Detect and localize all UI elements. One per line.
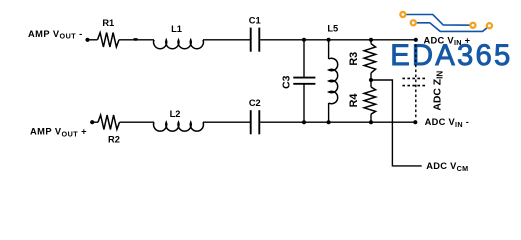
- node input minus dot: [85, 38, 89, 42]
- wire bottom rail: [260, 121, 415, 123]
- node junction dots top: [302, 38, 306, 42]
- EDA365 logo traces: [403, 15, 490, 32]
- resistor R3: [370, 40, 372, 44]
- svg-text:C1: C1: [249, 15, 261, 25]
- node input plus dot: [90, 120, 94, 124]
- svg-text:R4: R4: [348, 94, 360, 108]
- resistor R4: [370, 80, 372, 87]
- EDA365 logo vias: [400, 12, 492, 28]
- svg-text:EDA365: EDA365: [390, 39, 512, 72]
- node ADC VIN+ terminal: [414, 38, 418, 42]
- inductor L1: [154, 40, 204, 49]
- wire dashed ADC input impedance vertical: [415, 45, 417, 119]
- inductor L2: [154, 122, 204, 131]
- wire: [203, 39, 250, 41]
- wire: [88, 39, 98, 41]
- svg-text:R1: R1: [102, 18, 114, 28]
- inductor L5 branch: [328, 40, 330, 59]
- node junction dots bottom: [302, 120, 306, 124]
- capacitor C1: [250, 28, 252, 52]
- capacitor C3 branch: [303, 40, 305, 77]
- wire: [203, 121, 250, 123]
- svg-text:R2: R2: [108, 134, 120, 144]
- wire VCM route: [371, 80, 422, 166]
- svg-text:L1: L1: [171, 24, 182, 34]
- wire dashed impedance plate top: [402, 77, 426, 79]
- node ADC VIN- terminal: [413, 120, 417, 124]
- junction blob: [133, 38, 138, 41]
- svg-text:L5: L5: [327, 24, 338, 34]
- svg-text:R3: R3: [348, 52, 360, 66]
- wire: [120, 121, 155, 123]
- svg-text:C2: C2: [249, 98, 261, 108]
- wire: [92, 121, 98, 123]
- resistor R2: [98, 115, 120, 129]
- wire dashed segment visible between E and D: [415, 45, 417, 67]
- capacitor C2: [250, 110, 252, 134]
- svg-text:C3: C3: [281, 75, 292, 89]
- wire: [119, 39, 154, 41]
- wire dashed impedance plate bottom: [402, 85, 426, 87]
- svg-text:L2: L2: [170, 109, 181, 119]
- node R3/R4 junction: [369, 78, 373, 82]
- resistor R1: [98, 33, 120, 47]
- wire top rail: [260, 39, 416, 41]
